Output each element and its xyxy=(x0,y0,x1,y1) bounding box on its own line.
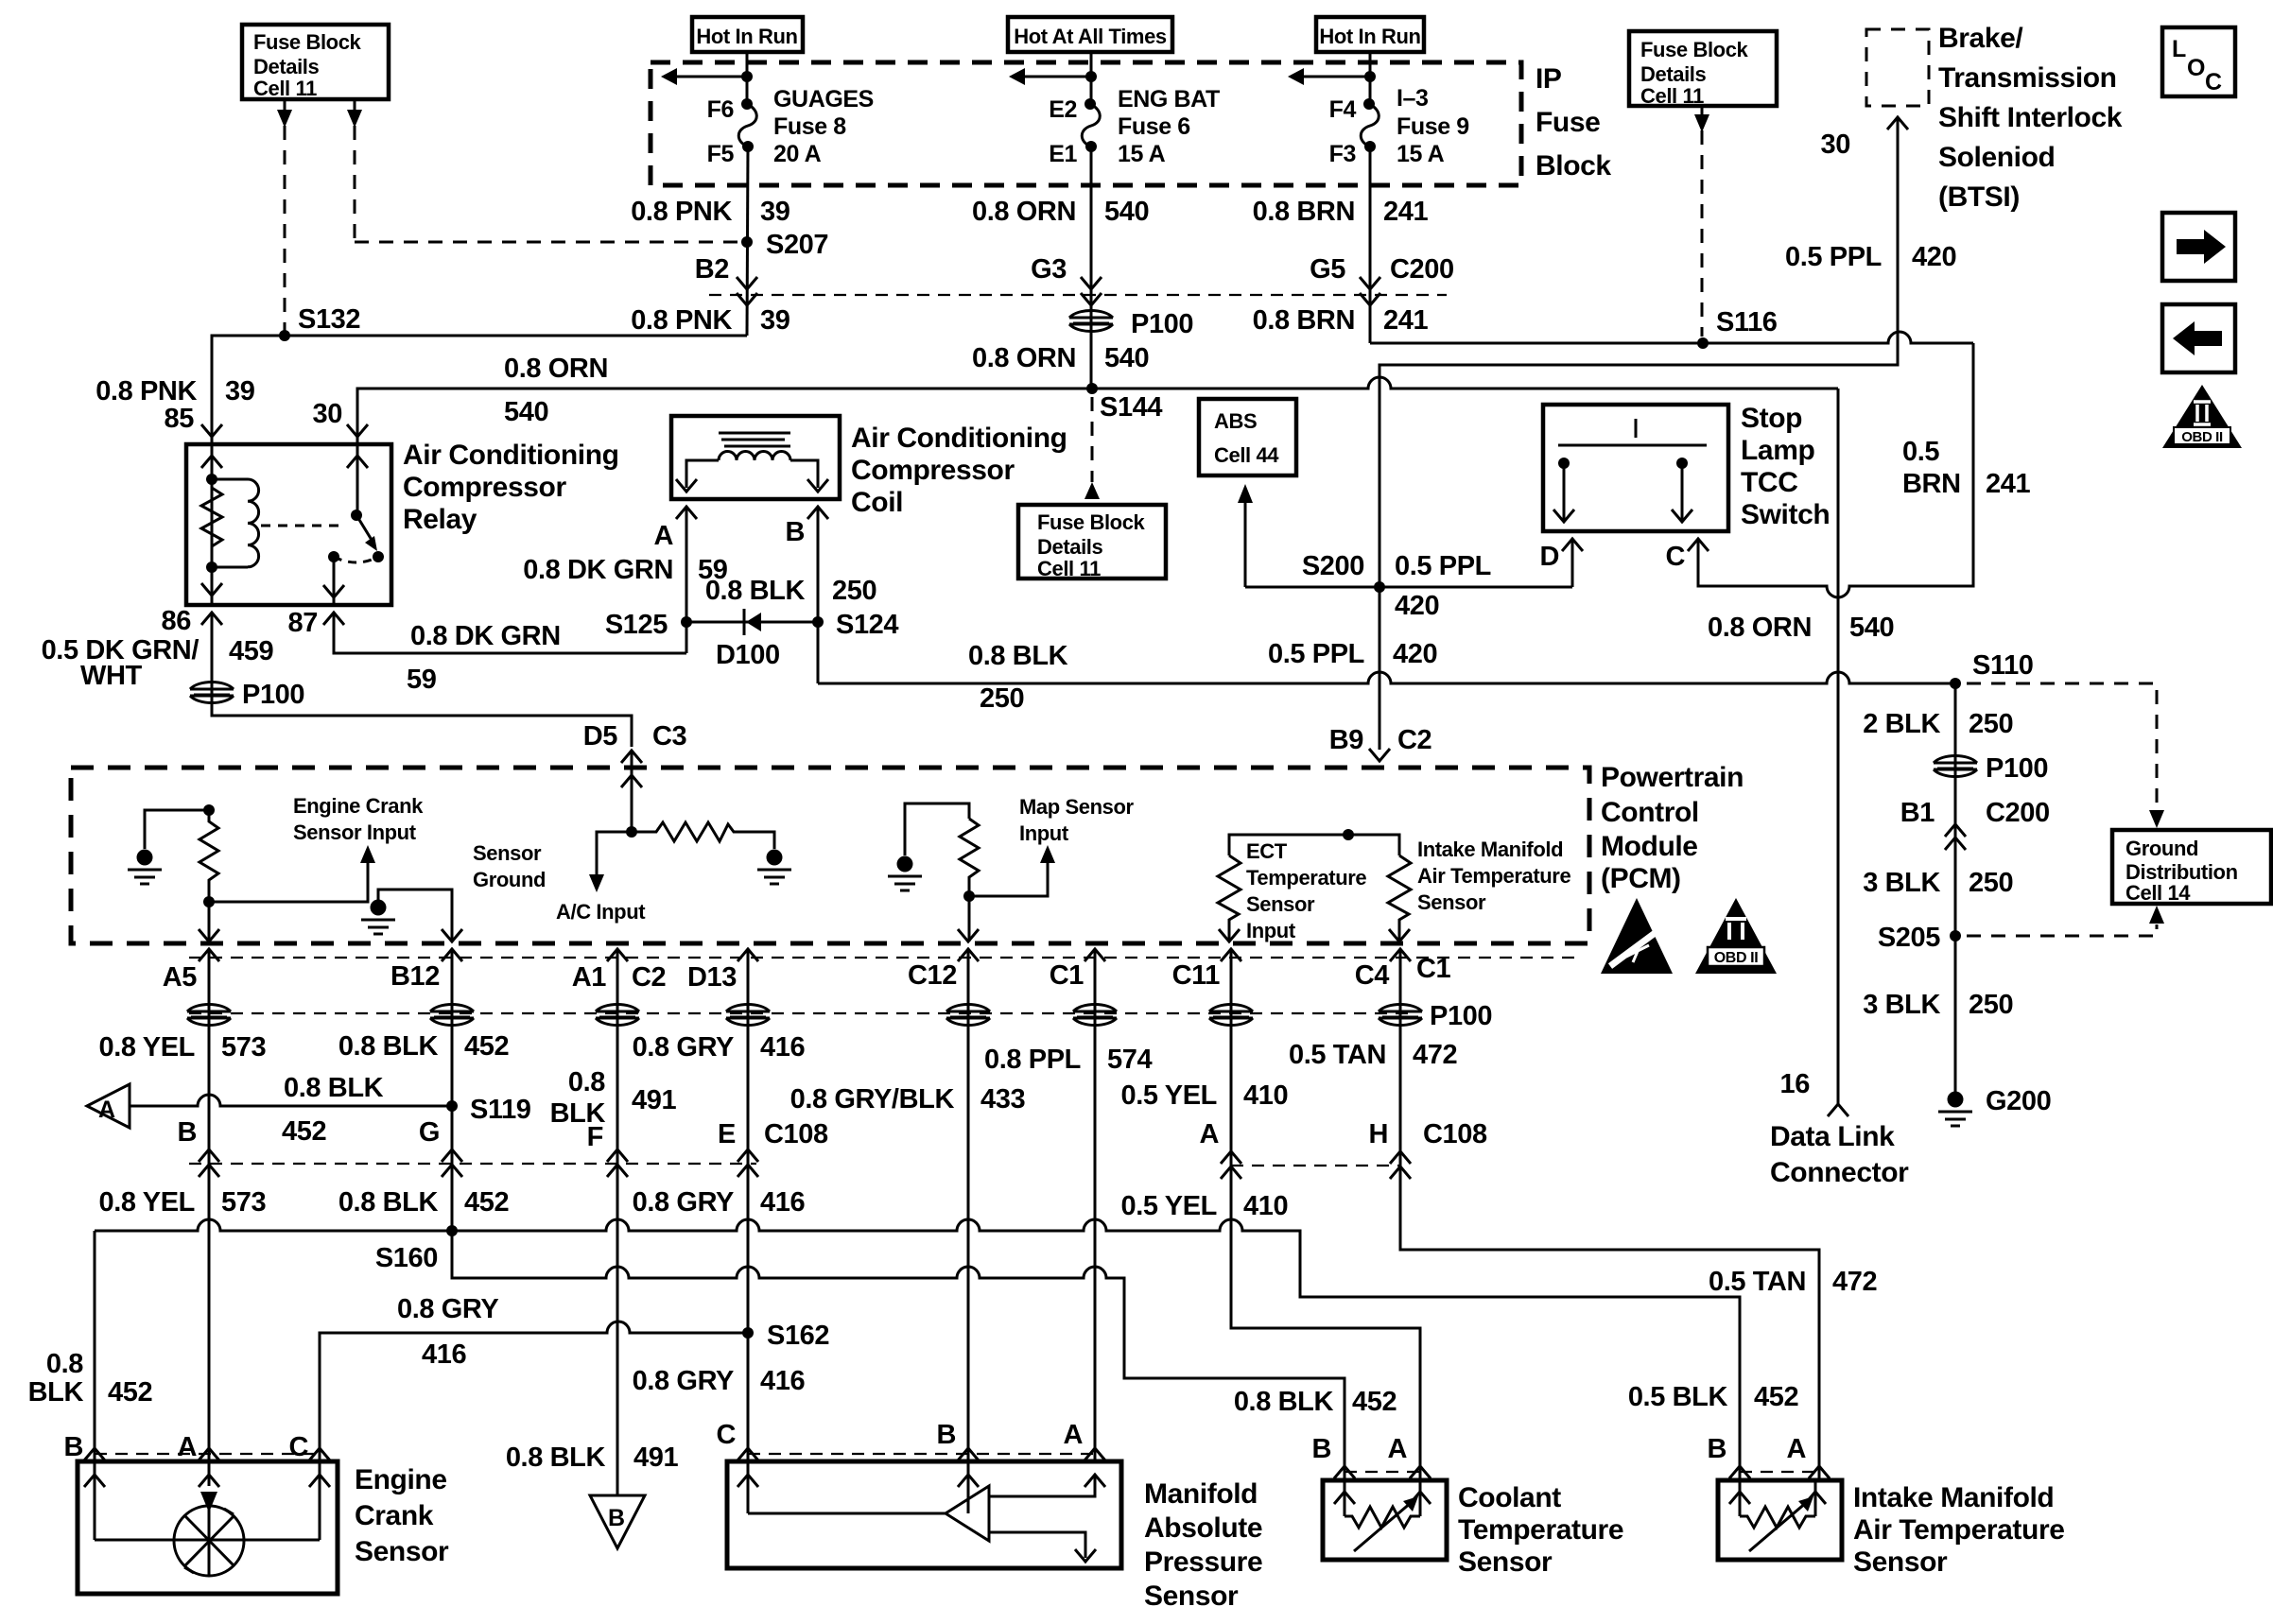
coil winding leads xyxy=(686,460,818,488)
svg-text:E2: E2 xyxy=(1049,96,1077,123)
svg-text:F6: F6 xyxy=(707,96,734,123)
C108 pin F xyxy=(607,1149,628,1162)
fuse F3 terminal xyxy=(1364,141,1376,152)
BTSI dashed box xyxy=(1866,29,1929,106)
Hot At All Times box xyxy=(1008,17,1172,52)
wire S200 to PCM B9/C2 (0.5 PPL 420) xyxy=(1379,587,1381,750)
arrowhead down on S132 dashed wire xyxy=(277,110,292,128)
wire TCC D to S200 xyxy=(1571,539,1574,587)
dashed reference wire S110 to ground distribution box xyxy=(1967,683,2157,809)
svg-text:241: 241 xyxy=(1986,469,2030,499)
svg-text:Fuse Block: Fuse Block xyxy=(253,30,362,54)
net tag A triangle xyxy=(87,1084,130,1128)
MAP amp input bottom xyxy=(989,1532,1085,1558)
svg-text:0.8 ORN: 0.8 ORN xyxy=(504,354,608,384)
fuse 8 feed stub xyxy=(674,76,747,78)
svg-text:E: E xyxy=(718,1119,736,1149)
svg-text:OBD II: OBD II xyxy=(1714,950,1759,966)
crank sensor pullup node xyxy=(203,804,215,816)
svg-text:0.8 ORN: 0.8 ORN xyxy=(1708,613,1812,643)
svg-text:C108: C108 xyxy=(1423,1119,1487,1149)
svg-text:BRN: BRN xyxy=(1902,469,1961,499)
LOC identifier box xyxy=(2162,27,2235,96)
svg-text:GUAGES: GUAGES xyxy=(773,86,874,112)
ESD warning triangle xyxy=(1601,898,1673,974)
svg-text:G: G xyxy=(419,1117,440,1148)
relay internal arrow down at 86 xyxy=(201,583,222,596)
relay output wire pin 87 xyxy=(333,557,336,605)
svg-text:C11: C11 xyxy=(1172,960,1221,991)
svg-text:B2: B2 xyxy=(695,254,729,285)
fuse E1 terminal xyxy=(1085,141,1097,152)
wire S110 to G200 (2 BLK 250) xyxy=(1954,683,1957,1097)
TCC switch plunger xyxy=(1558,419,1707,445)
svg-text:S144: S144 xyxy=(1100,392,1162,423)
svg-text:C12: C12 xyxy=(908,960,957,991)
wire P100 to PCM pin D5/C3 xyxy=(212,704,632,747)
MAP input branch arrow xyxy=(969,862,1048,896)
svg-text:(BTSI): (BTSI) xyxy=(1938,181,2020,213)
svg-text:A1: A1 xyxy=(572,962,607,993)
back arrow box xyxy=(2162,304,2235,372)
svg-text:540: 540 xyxy=(504,397,548,427)
sensor ground wire xyxy=(378,890,452,942)
svg-text:459: 459 xyxy=(229,636,273,666)
svg-text:Cell 11: Cell 11 xyxy=(1640,84,1704,108)
fuse F6 terminal xyxy=(741,98,753,110)
svg-text:Compressor: Compressor xyxy=(851,455,1015,486)
svg-text:0.8 GRY: 0.8 GRY xyxy=(397,1294,498,1324)
ECT pull resistor xyxy=(1218,855,1241,942)
OBD II triangle at PCM xyxy=(1695,898,1777,974)
svg-text:250: 250 xyxy=(980,683,1024,714)
TCC switch contact arrow C xyxy=(1681,463,1684,520)
crank pin B xyxy=(84,1448,105,1460)
relay internal arrow up at 30 xyxy=(347,456,368,468)
svg-text:3 BLK: 3 BLK xyxy=(1863,868,1940,898)
fuse 8 feed arrowhead xyxy=(661,68,677,85)
arrowhead up to S144 xyxy=(1084,482,1100,499)
connector arrow at coil pin A xyxy=(676,507,697,519)
wire A tag to S119 xyxy=(130,1095,452,1106)
svg-text:420: 420 xyxy=(1395,591,1439,621)
connector arrow at relay pin 87 xyxy=(323,613,344,625)
MAP pin A xyxy=(1084,1448,1105,1460)
svg-text:C108: C108 xyxy=(764,1119,828,1149)
svg-text:573: 573 xyxy=(221,1032,266,1063)
wire A5 down xyxy=(208,949,211,1461)
MAP sensor connector dashes xyxy=(748,1453,1095,1455)
crank sensor pullup wire to ground xyxy=(145,810,209,849)
svg-text:A5: A5 xyxy=(163,962,198,993)
svg-text:Cell 11: Cell 11 xyxy=(253,77,317,100)
svg-text:Lamp: Lamp xyxy=(1741,435,1814,466)
svg-text:Switch: Switch xyxy=(1741,499,1830,530)
svg-text:C2: C2 xyxy=(632,962,666,993)
ground in PCM crank circuit xyxy=(128,850,162,885)
relay coil-arm dashed link xyxy=(261,525,342,527)
svg-text:39: 39 xyxy=(760,197,790,227)
ground distribution box xyxy=(2112,830,2271,904)
svg-text:F3: F3 xyxy=(1329,141,1356,167)
svg-text:C: C xyxy=(288,1432,308,1462)
svg-text:D100: D100 xyxy=(716,640,780,670)
relay internal arrow up at 85 xyxy=(201,456,222,468)
svg-text:C3: C3 xyxy=(652,721,687,752)
svg-text:540: 540 xyxy=(1104,197,1149,227)
svg-text:B9: B9 xyxy=(1329,725,1364,755)
svg-text:Cell 11: Cell 11 xyxy=(1037,557,1101,580)
svg-text:Details: Details xyxy=(1037,535,1103,559)
PCM pin C12 xyxy=(958,949,979,961)
fuse block details box 3 xyxy=(1629,31,1777,106)
PCM connector dashed line xyxy=(189,957,1574,959)
svg-text:B: B xyxy=(936,1420,956,1450)
svg-text:Input: Input xyxy=(1246,919,1296,942)
wire coil B to S124 (0.8 BLK 250) xyxy=(817,507,820,683)
svg-text:Intake Manifold: Intake Manifold xyxy=(1417,838,1563,861)
svg-text:C2: C2 xyxy=(1397,725,1431,755)
svg-text:Sensor: Sensor xyxy=(355,1536,449,1567)
relay node bottom xyxy=(206,561,217,573)
svg-text:452: 452 xyxy=(464,1031,509,1062)
svg-text:574: 574 xyxy=(1107,1045,1152,1075)
svg-text:Sensor: Sensor xyxy=(1417,890,1486,914)
MAP internal stub B xyxy=(967,1461,970,1513)
connector arrow at relay pin 86 xyxy=(201,613,222,625)
MAP input node xyxy=(963,890,975,902)
svg-text:Sensor: Sensor xyxy=(1144,1581,1239,1612)
relay output contact node xyxy=(328,551,339,562)
PCM edge arrow at C4 xyxy=(1389,929,1410,942)
svg-text:F5: F5 xyxy=(707,141,735,167)
connector P100 at B12 xyxy=(430,1005,474,1026)
IMAT pull resistor xyxy=(1388,855,1411,942)
svg-text:491: 491 xyxy=(632,1085,676,1115)
MAP pullup wire xyxy=(905,803,969,855)
PCM pin D13 xyxy=(737,949,758,961)
svg-text:S125: S125 xyxy=(605,610,668,640)
svg-text:C: C xyxy=(2205,69,2222,95)
coolant temperature sensor box xyxy=(1323,1480,1447,1560)
svg-text:C1: C1 xyxy=(1050,960,1084,991)
svg-text:TCC: TCC xyxy=(1741,467,1797,498)
wire crank input to PCM edge xyxy=(208,902,211,942)
S160 ground bus xyxy=(95,1219,1740,1480)
svg-text:A: A xyxy=(1786,1434,1806,1464)
ABS reference box xyxy=(1199,399,1296,475)
relay coil feed wire pin85 xyxy=(211,444,214,605)
coolant pin A xyxy=(1410,1466,1431,1478)
wire 0.8 ORN 540 bus xyxy=(357,377,1838,430)
svg-text:0.8 BLK: 0.8 BLK xyxy=(705,576,806,606)
svg-text:Cell 14: Cell 14 xyxy=(2126,881,2191,905)
crank sensor arrow into wheel xyxy=(200,1492,217,1512)
fuse 6 feed stub xyxy=(1022,76,1091,78)
svg-text:G3: G3 xyxy=(1031,254,1067,285)
svg-text:ABS: ABS xyxy=(1214,409,1257,433)
svg-text:0.8 YEL: 0.8 YEL xyxy=(99,1187,195,1218)
svg-text:Pressure: Pressure xyxy=(1144,1546,1262,1578)
svg-text:39: 39 xyxy=(760,305,790,336)
splice S144 xyxy=(1086,383,1098,394)
connector P100 on ORN wire xyxy=(1069,311,1113,332)
svg-text:Intake Manifold: Intake Manifold xyxy=(1853,1482,2054,1513)
dashed reference wire from box1 to S207 (vertical) xyxy=(354,101,356,242)
svg-text:Manifold: Manifold xyxy=(1144,1478,1258,1510)
ground G200 xyxy=(1938,1092,1972,1127)
dashed reference wire S205 to ground distribution box xyxy=(1967,924,2157,936)
svg-text:S132: S132 xyxy=(298,304,360,335)
connector C200 dashed line xyxy=(709,294,1447,296)
net tag B triangle xyxy=(590,1495,645,1548)
svg-text:0.5: 0.5 xyxy=(1902,437,1939,467)
connector P100 at C11 xyxy=(1209,1005,1253,1026)
C108 pin E xyxy=(737,1149,758,1162)
C108 pin H xyxy=(1390,1151,1411,1164)
engine crank sensor connector dashes xyxy=(95,1453,320,1455)
connector P100 at A5 xyxy=(187,1005,231,1026)
svg-text:L: L xyxy=(2172,36,2186,62)
svg-text:Air Temperature: Air Temperature xyxy=(1853,1514,2065,1546)
svg-text:F4: F4 xyxy=(1329,96,1357,123)
svg-text:S160: S160 xyxy=(375,1243,438,1273)
IMAT pin A xyxy=(1809,1466,1830,1478)
wire C1 down to MAP A xyxy=(1094,949,1097,1461)
connector P100 at C12 xyxy=(946,1005,990,1026)
svg-text:0.8 DK GRN: 0.8 DK GRN xyxy=(523,555,673,585)
svg-text:C: C xyxy=(1665,542,1685,572)
svg-text:0.5 YEL: 0.5 YEL xyxy=(1121,1080,1217,1111)
MAP pin B xyxy=(958,1448,979,1460)
svg-text:Coolant: Coolant xyxy=(1458,1482,1561,1513)
wire 0.8 BRN 241 horizontal from fuse 9 xyxy=(1370,332,1973,343)
ground in PCM sensor-ground circuit xyxy=(361,900,395,935)
svg-text:A/C Input: A/C Input xyxy=(556,900,646,924)
connector P100 at A1 xyxy=(596,1005,639,1026)
svg-text:Fuse: Fuse xyxy=(1536,107,1600,138)
svg-text:0.8 BRN: 0.8 BRN xyxy=(1253,197,1355,227)
wire from Hot In Run 2 to fuse F4 xyxy=(1369,52,1372,104)
splice S200 xyxy=(1374,581,1385,593)
coil core lines xyxy=(719,433,790,446)
svg-text:Hot In Run: Hot In Run xyxy=(696,25,797,48)
svg-text:0.8 ORN: 0.8 ORN xyxy=(972,343,1076,373)
diode D100 xyxy=(743,609,746,635)
svg-text:0.8 GRY: 0.8 GRY xyxy=(633,1032,734,1063)
svg-text:452: 452 xyxy=(1352,1387,1397,1417)
svg-text:S207: S207 xyxy=(766,230,828,260)
svg-text:Fuse Block: Fuse Block xyxy=(1037,510,1146,534)
svg-text:C: C xyxy=(716,1420,736,1450)
svg-text:O: O xyxy=(2187,55,2205,81)
svg-text:C1: C1 xyxy=(1416,954,1451,984)
ECT/IMAT feed wire xyxy=(1229,835,1399,855)
svg-text:Input: Input xyxy=(1019,821,1069,845)
connector arrow at B9/C2 xyxy=(1369,749,1390,761)
svg-text:0.5 PPL: 0.5 PPL xyxy=(1785,242,1882,272)
coolant sensor connector dashes xyxy=(1345,1471,1420,1473)
svg-text:Sensor: Sensor xyxy=(1246,892,1315,916)
svg-text:540: 540 xyxy=(1849,613,1894,643)
connector arrow at DLC pin 16 xyxy=(1828,1104,1848,1116)
crank sensor pullup resistor xyxy=(200,810,218,902)
wire 87 to S125 (0.8 DK GRN 59) xyxy=(334,613,686,653)
wire C4 down to IMAT A xyxy=(1400,949,1819,1480)
svg-text:G5: G5 xyxy=(1310,254,1345,285)
manifold absolute pressure sensor box xyxy=(727,1461,1121,1568)
svg-text:Cell 44: Cell 44 xyxy=(1214,443,1279,467)
wire ABS arrow to S200 xyxy=(1245,586,1572,589)
svg-text:Temperature: Temperature xyxy=(1246,866,1366,890)
svg-text:B: B xyxy=(1707,1434,1726,1464)
svg-text:(PCM): (PCM) xyxy=(1601,863,1681,894)
wire from Hot At All Times to fuse E2 xyxy=(1090,52,1093,104)
svg-text:0.8 PNK: 0.8 PNK xyxy=(631,197,732,227)
splice S119 xyxy=(446,1100,458,1112)
wire C12 down to MAP B xyxy=(967,949,970,1461)
svg-text:A: A xyxy=(1199,1119,1219,1149)
PCM pin C1 xyxy=(1084,949,1105,961)
Hot In Run box 2 xyxy=(1316,17,1424,52)
fuse 6 element xyxy=(1082,104,1100,147)
svg-text:Transmission: Transmission xyxy=(1938,62,2117,94)
svg-text:0.8 BRN: 0.8 BRN xyxy=(1253,305,1355,336)
svg-text:Sensor Input: Sensor Input xyxy=(293,821,417,844)
wire BTSI to S200 (0.5 PPL 420) xyxy=(1379,117,1898,587)
svg-text:Sensor: Sensor xyxy=(1458,1546,1553,1578)
svg-text:416: 416 xyxy=(422,1339,466,1370)
svg-text:Sensor: Sensor xyxy=(473,841,542,865)
diode D100 wire S125-S124 xyxy=(686,621,818,624)
wire 0.8 PNK 39 horizontal bus to relay 85 xyxy=(212,336,747,444)
svg-text:86: 86 xyxy=(162,606,192,636)
svg-text:59: 59 xyxy=(407,665,437,695)
svg-text:BLK: BLK xyxy=(28,1377,84,1408)
crank sensor wheel xyxy=(174,1506,244,1576)
svg-text:S205: S205 xyxy=(1878,923,1940,953)
svg-text:H: H xyxy=(1368,1119,1388,1149)
relay switch contact xyxy=(373,551,384,562)
wire crank sensor B xyxy=(94,1231,96,1461)
powertrain control module dashed box xyxy=(71,768,1589,943)
svg-text:452: 452 xyxy=(464,1187,509,1218)
OBD II icon top right xyxy=(2162,385,2242,448)
splice S110 xyxy=(1950,678,1961,689)
fuse block details box 2 xyxy=(1018,505,1166,579)
svg-text:540: 540 xyxy=(1104,343,1149,373)
svg-text:Connector: Connector xyxy=(1770,1157,1909,1188)
svg-text:Map Sensor: Map Sensor xyxy=(1019,795,1135,819)
fuse 9 element xyxy=(1361,104,1379,147)
C108 pin B xyxy=(199,1149,219,1162)
wire F3 down (0.8 BRN 241) xyxy=(1369,147,1372,343)
wire E1 to S144 (0.8 ORN 540) xyxy=(1090,147,1093,389)
svg-text:Soleniod: Soleniod xyxy=(1938,142,2055,173)
svg-text:410: 410 xyxy=(1243,1080,1288,1111)
svg-text:S200: S200 xyxy=(1302,551,1364,581)
A/C pull resistor xyxy=(632,822,774,849)
fuse E2 terminal xyxy=(1084,98,1096,110)
connector C200 arrows B1 xyxy=(1945,824,1966,837)
crank pin C xyxy=(309,1448,330,1460)
C108 pin G xyxy=(442,1149,462,1162)
svg-text:573: 573 xyxy=(221,1187,266,1218)
wire A1 down to B tag xyxy=(616,949,619,1495)
svg-text:3 BLK: 3 BLK xyxy=(1863,990,1940,1020)
connector P100 at D13 xyxy=(726,1005,770,1026)
splice S160 xyxy=(446,1225,458,1236)
svg-text:Details: Details xyxy=(253,55,320,78)
svg-text:Block: Block xyxy=(1536,150,1611,181)
MAP amp input top from A xyxy=(989,1475,1095,1496)
splice S205 xyxy=(1950,930,1961,942)
svg-text:0.5 TAN: 0.5 TAN xyxy=(1289,1040,1386,1070)
svg-text:A: A xyxy=(98,1097,115,1123)
relay resistor xyxy=(201,488,222,546)
PCM pin A5 xyxy=(199,949,219,961)
connector arrow at TCC pin D xyxy=(1562,539,1583,551)
svg-text:Sensor: Sensor xyxy=(1853,1546,1948,1578)
fuse F5 terminal xyxy=(742,141,754,152)
dashed reference wire from box1 to S132 xyxy=(284,101,286,333)
node on fuse 8 feed xyxy=(741,71,753,82)
fuse block details box 1 xyxy=(242,25,389,99)
svg-text:0.8 BLK: 0.8 BLK xyxy=(968,641,1068,671)
relay switch pivot xyxy=(351,510,362,521)
svg-text:ECT: ECT xyxy=(1246,839,1288,863)
svg-text:Module: Module xyxy=(1601,831,1698,862)
svg-text:Shift Interlock: Shift Interlock xyxy=(1938,102,2123,133)
splice S132 xyxy=(279,330,290,341)
connector P100 on right BLK wire xyxy=(1934,756,1977,777)
svg-text:P100: P100 xyxy=(1430,1001,1492,1031)
svg-text:452: 452 xyxy=(282,1116,326,1147)
fuse F4 terminal xyxy=(1363,98,1375,110)
svg-text:A: A xyxy=(1387,1434,1407,1464)
connector P100 on 86 wire xyxy=(190,682,234,703)
svg-text:0.5 PPL: 0.5 PPL xyxy=(1395,551,1491,581)
svg-text:452: 452 xyxy=(1754,1382,1798,1412)
PCM edge arrow at C12 xyxy=(958,929,979,942)
svg-text:0.8 YEL: 0.8 YEL xyxy=(99,1032,195,1063)
svg-text:Ground: Ground xyxy=(473,868,546,891)
svg-text:S162: S162 xyxy=(767,1321,829,1351)
svg-text:D13: D13 xyxy=(687,962,737,993)
wire coil A to S125 (0.8 DK GRN 59) xyxy=(685,507,688,653)
relay switch arm xyxy=(356,515,374,544)
wire 0.8 ORN 540 down to data link connector xyxy=(1837,389,1840,1104)
svg-text:Fuse 6: Fuse 6 xyxy=(1118,113,1190,140)
svg-text:472: 472 xyxy=(1413,1040,1457,1070)
svg-text:B12: B12 xyxy=(390,961,440,992)
svg-text:30: 30 xyxy=(1821,130,1850,160)
svg-text:Brake/: Brake/ xyxy=(1938,23,2023,54)
connector arrow at BTSI pin 30 xyxy=(1887,117,1908,130)
svg-text:Fuse 9: Fuse 9 xyxy=(1397,113,1469,140)
PCM pin C11 xyxy=(1221,949,1241,961)
svg-text:0.8 BLK: 0.8 BLK xyxy=(506,1443,606,1473)
air conditioning compressor relay box xyxy=(186,444,391,605)
svg-text:IP: IP xyxy=(1536,63,1562,95)
arrowhead up into ground distribution box xyxy=(2149,906,2164,924)
svg-text:OBD II: OBD II xyxy=(2181,429,2223,445)
ECT/IMAT feed node xyxy=(1343,829,1354,840)
arrowhead down into ground distribution box xyxy=(2149,810,2164,828)
svg-text:416: 416 xyxy=(760,1187,805,1218)
svg-text:A: A xyxy=(1063,1420,1083,1450)
svg-text:Ground: Ground xyxy=(2126,837,2198,860)
